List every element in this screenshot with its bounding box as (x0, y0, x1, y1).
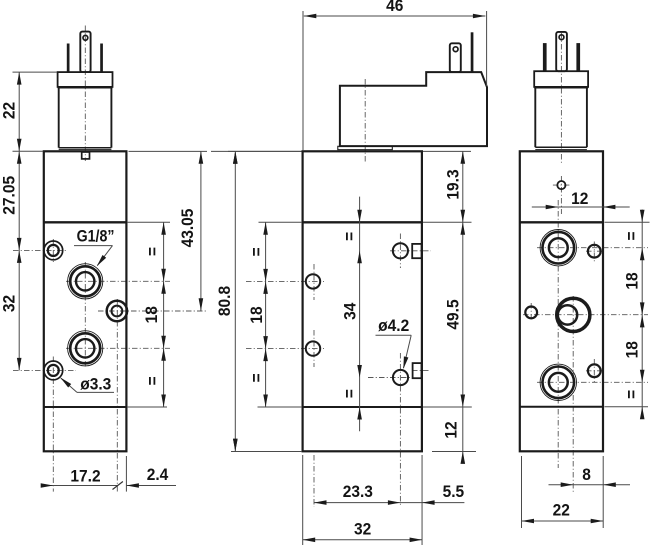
svg-text:22: 22 (0, 102, 19, 119)
svg-text:18: 18 (248, 306, 267, 323)
svg-text:43.05: 43.05 (179, 209, 198, 248)
svg-text:18: 18 (142, 306, 161, 323)
svg-text:=: = (340, 389, 359, 398)
svg-text:12: 12 (442, 421, 461, 438)
svg-text:ø3.3: ø3.3 (80, 375, 111, 394)
svg-text:=: = (622, 390, 641, 399)
svg-text:=: = (340, 232, 359, 241)
svg-text:=: = (247, 247, 266, 256)
svg-text:46: 46 (386, 0, 403, 15)
svg-text:17.2: 17.2 (70, 467, 100, 486)
svg-text:49.5: 49.5 (444, 299, 463, 329)
svg-text:=: = (622, 231, 641, 240)
svg-text:8: 8 (582, 465, 591, 484)
svg-text:2.4: 2.4 (147, 466, 169, 485)
svg-text:18: 18 (623, 272, 642, 289)
svg-text:=: = (247, 373, 266, 382)
svg-text:ø4.2: ø4.2 (378, 316, 409, 335)
svg-text:12: 12 (571, 189, 588, 208)
svg-text:22: 22 (553, 501, 570, 520)
svg-text:32: 32 (0, 295, 19, 312)
svg-text:G1/8”: G1/8” (77, 228, 115, 246)
svg-text:19.3: 19.3 (444, 169, 463, 199)
svg-text:23.3: 23.3 (343, 483, 373, 502)
svg-text:34: 34 (341, 303, 360, 320)
svg-text:32: 32 (354, 520, 371, 539)
svg-text:=: = (144, 376, 163, 385)
svg-text:80.8: 80.8 (216, 286, 235, 316)
svg-text:=: = (144, 247, 163, 256)
svg-text:27.05: 27.05 (0, 176, 19, 215)
svg-text:5.5: 5.5 (443, 483, 465, 502)
svg-text:18: 18 (623, 341, 642, 358)
